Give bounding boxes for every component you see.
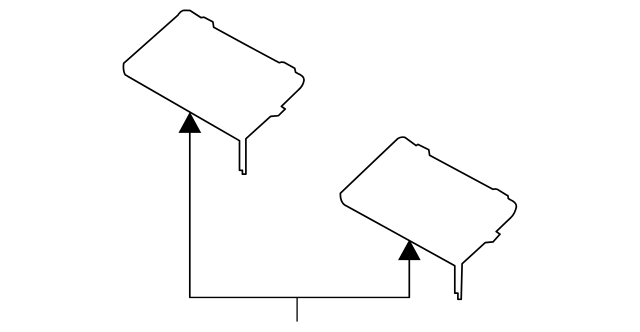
arrow 1 head [179,113,200,132]
visor panel 2 (lower right) with retaining pin [340,137,516,299]
bracket stem [296,297,298,321]
arrow 2 head [399,241,420,260]
visor panel 1 (upper left) with retaining pin [123,10,304,174]
arrow 1 shaft [189,132,191,298]
bracket horizontal line [189,296,410,298]
arrow 2 shaft [408,259,410,297]
